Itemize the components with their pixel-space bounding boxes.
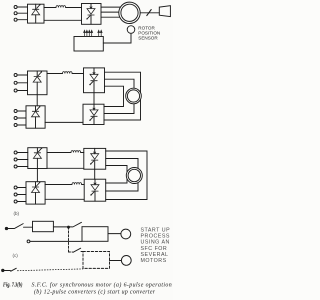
synchronous motor M (b2)	[126, 168, 142, 184]
third branch dotted continuation	[18, 269, 84, 271]
wire SFC box to junction	[53, 226, 72, 228]
source SCR symbol A (b2)	[33, 148, 42, 169]
motor loop wire outer (b2)	[106, 151, 147, 200]
series link source A-B (b1)	[36, 95, 38, 106]
shaft slash mark	[147, 10, 151, 16]
terminal B2 phase 1	[14, 110, 26, 113]
junction node	[68, 226, 70, 228]
third branch switch blade	[11, 268, 16, 271]
motor loop wire outer (b1)	[104, 72, 141, 120]
series link machine (b2)	[94, 169, 96, 179]
motor 2 (c)	[121, 256, 131, 266]
firing / control box (a)	[74, 37, 103, 52]
machine converter box A (b1)	[84, 68, 105, 93]
terminal A phase 3	[14, 18, 27, 21]
wire switch S1 to SFC box	[24, 226, 33, 228]
machine SCR symbol B (b2)	[90, 179, 99, 201]
terminal B1 phase 1	[14, 74, 27, 77]
terminal B3 phase 3	[14, 165, 28, 168]
gate pulse arrows group 1	[84, 30, 93, 36]
machine SCR symbol (a)	[86, 4, 95, 25]
svg-text:(b) 12-pulse converters (c) st: (b) 12-pulse converters (c) start up con…	[34, 288, 156, 295]
series link source (b2)	[36, 169, 38, 182]
third branch stub wire	[4, 270, 10, 272]
motor loop wire middle (b2)	[106, 159, 138, 192]
wire firing box to sensor	[103, 33, 131, 43]
smoothing inductor row A (b2)	[71, 151, 81, 153]
motor feed wires (a)	[101, 7, 122, 17]
DC bottom wire (b1)	[45, 121, 83, 123]
svg-text:Fig. 7.3(b): Fig. 7.3(b)	[3, 281, 23, 288]
rotor position sensor circle	[127, 26, 135, 34]
switch S2 blade	[73, 222, 82, 227]
DC link top wire (a)	[44, 7, 82, 9]
third branch dot	[2, 269, 4, 271]
source converter box A (b1)	[28, 71, 48, 95]
smoothing inductor (b1)	[63, 72, 73, 74]
svg-text:USING AN: USING AN	[141, 240, 170, 246]
gate pulse arrows group 2	[98, 30, 102, 36]
wire box2 to motor 2	[110, 260, 122, 262]
SFC supply box (c)	[33, 221, 54, 231]
load horn	[159, 6, 170, 17]
source SCR symbol (a)	[32, 4, 41, 23]
caption line 1	[3, 281, 172, 288]
svg-text:(c): (c)	[13, 253, 19, 258]
terminal B2 phase 2	[14, 117, 26, 120]
machine SCR symbol A (b1)	[89, 68, 98, 93]
DC top wire row B (b2)	[45, 184, 84, 186]
series link machine A-B (b1)	[93, 93, 95, 105]
terminal B3 phase 1	[14, 151, 28, 154]
motor 1 (c)	[121, 229, 131, 239]
switch S1 blade	[15, 224, 23, 229]
DC link bottom wire (a)	[44, 19, 82, 21]
supply node dot (c)	[5, 227, 7, 229]
source converter box B (b2)	[26, 182, 45, 204]
svg-text:PROCESS: PROCESS	[141, 234, 170, 240]
label (c)	[13, 253, 19, 258]
dashed riser from junction	[68, 227, 70, 252]
motor loop wire inner (b1)	[104, 86, 124, 106]
machine SCR symbol B (b1)	[89, 104, 98, 124]
DC top wire row A (b2)	[47, 152, 84, 154]
machine converter box B (b2)	[84, 179, 106, 201]
svg-text:SENSOR: SENSOR	[138, 36, 158, 41]
terminal B4 phase 2	[14, 193, 26, 196]
terminal B2 phase 3	[14, 124, 26, 127]
terminal A phase 2	[14, 12, 27, 15]
svg-text:MOTORS: MOTORS	[141, 258, 167, 264]
source SCR symbol A (b1)	[33, 71, 42, 95]
annotation: START UP PROCESS USING AN SFC FOR SEVERAL MOTORS	[141, 228, 171, 265]
machine SCR symbol A (b2)	[90, 148, 99, 169]
label: ROTOR POSITION SENSOR	[138, 25, 160, 40]
terminal B1 phase 2	[14, 81, 27, 84]
switch S3 blade (dashed branch)	[73, 248, 81, 252]
source converter box A (b2)	[28, 148, 47, 169]
smoothing inductor L (a)	[56, 6, 66, 8]
wire to switch S1	[8, 228, 15, 230]
terminal A phase 1	[14, 6, 27, 9]
svg-text:SEVERAL: SEVERAL	[141, 252, 169, 258]
source SCR symbol B (b2)	[32, 182, 41, 204]
machine converter box B (b1)	[83, 104, 104, 124]
terminal B4 phase 1	[14, 186, 26, 189]
DC bottom wire row B (b2)	[45, 198, 84, 200]
motor loop wire inner (b2)	[106, 166, 127, 184]
svg-text:(b): (b)	[14, 211, 20, 216]
terminal B4 phase 3	[14, 200, 26, 203]
caption line 2	[34, 288, 156, 295]
terminal B1 phase 3	[14, 89, 27, 92]
svg-text:SFC FOR: SFC FOR	[141, 246, 168, 252]
synchronous motor M (b1)	[126, 88, 142, 104]
source converter box B (b1)	[26, 106, 45, 128]
DC top wire (b1)	[47, 73, 84, 75]
svg-text:S.F.C. for synchronous motor (: S.F.C. for synchronous motor (a) 6-pulse…	[32, 281, 173, 288]
svg-text:START UP: START UP	[141, 228, 171, 234]
wire box1 to motor 1	[108, 233, 121, 235]
second supply terminal	[27, 240, 30, 243]
motor unit box 1 (solid)	[82, 227, 108, 242]
dashed wire into future box	[81, 251, 83, 253]
dashed wire to switch S3	[69, 251, 73, 253]
label (b)	[14, 211, 20, 216]
source SCR symbol B (b1)	[32, 106, 41, 128]
source converter box (a)	[28, 4, 45, 23]
second supply wire	[30, 240, 82, 242]
machine converter box (a)	[82, 4, 102, 25]
smoothing inductor row B (b2)	[72, 183, 82, 185]
synchronous motor M (a)	[119, 2, 140, 23]
terminal B3 phase 2	[14, 158, 28, 161]
DC bottom wire row A (b2)	[47, 167, 84, 169]
wire switch S2 to motor box 1	[81, 226, 83, 228]
motor loop wire middle (b1)	[104, 79, 134, 113]
motor shaft	[140, 12, 159, 14]
machine converter box A (b2)	[84, 148, 106, 169]
motor unit box 2 (dashed / future)	[83, 252, 110, 269]
